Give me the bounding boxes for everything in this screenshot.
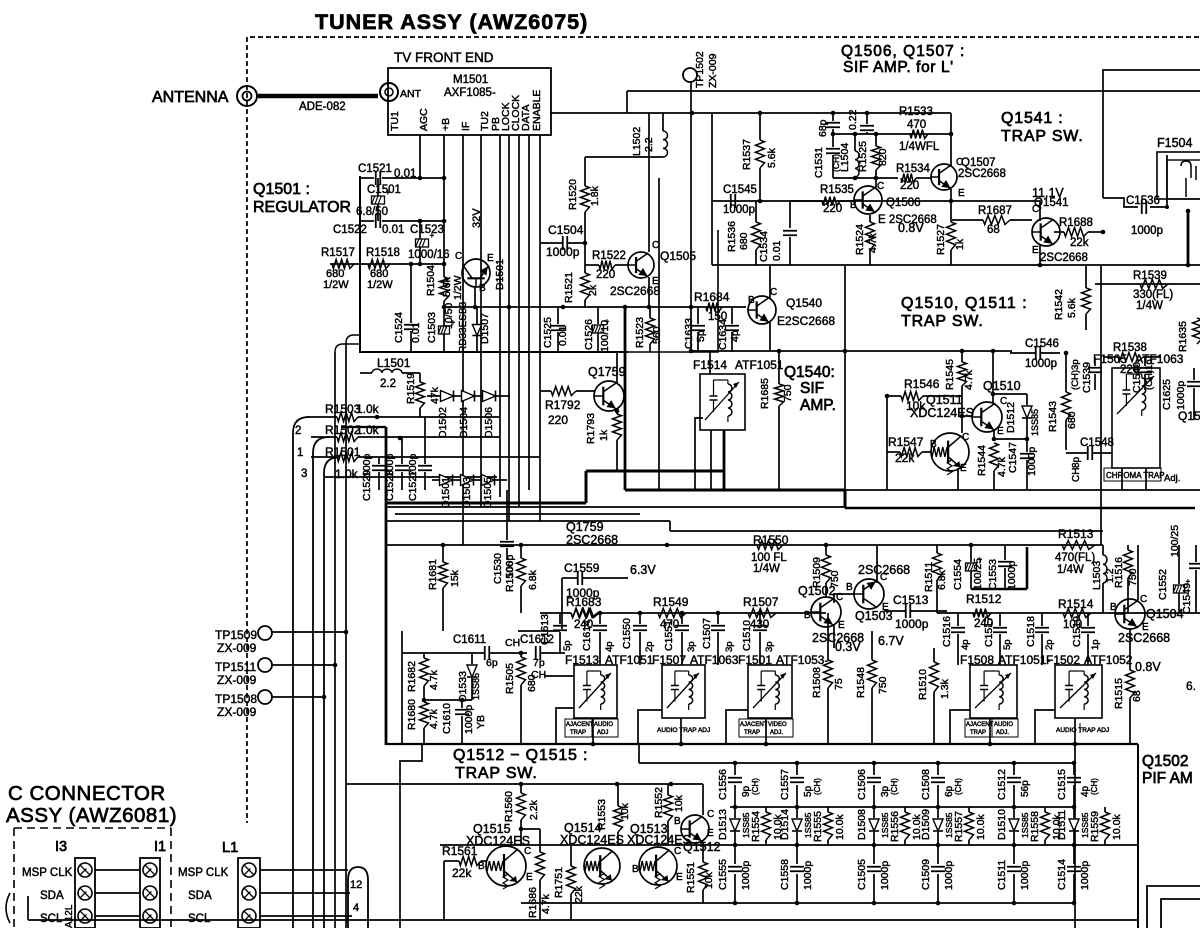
transistor Q1504 (1115, 599, 1145, 629)
svg-text:E: E (676, 872, 683, 883)
svg-text:1/4W: 1/4W (1136, 300, 1163, 312)
svg-text:1k: 1k (598, 429, 610, 441)
wire SIF row y178 (833, 177, 898, 179)
svg-text:R1688: R1688 (1059, 217, 1093, 229)
svg-text:E: E (526, 872, 533, 883)
wire TP1511 (271, 664, 335, 666)
svg-text:(CH): (CH) (954, 778, 963, 795)
wire row y477 (324, 476, 497, 478)
svg-text:C: C (524, 846, 531, 857)
svg-text:22k: 22k (452, 866, 472, 880)
svg-text:C1550: C1550 (621, 618, 633, 649)
transistor Q1501 (462, 259, 490, 287)
svg-text:C1522: C1522 (333, 224, 367, 236)
wire +B pin (443, 135, 445, 264)
wire bus y307 (443, 306, 746, 308)
svg-text:D1511: D1511 (1056, 810, 1068, 840)
filter F1513 box (574, 665, 617, 718)
svg-text:E2SC2668: E2SC2668 (777, 314, 835, 328)
svg-text:Q1505: Q1505 (660, 249, 696, 263)
antenna cable ADE-082 wire (258, 94, 378, 99)
wire x887 (886, 396, 888, 490)
svg-text:R1683: R1683 (566, 595, 602, 609)
svg-text:C: C (707, 809, 714, 820)
wire bus y744 heavy (386, 743, 1138, 745)
svg-text:5p: 5p (562, 640, 573, 651)
wire x639 stub (638, 744, 640, 763)
wire bus y351 (691, 350, 1012, 352)
svg-text:1000p: 1000p (1019, 861, 1031, 890)
svg-text:10k: 10k (619, 802, 631, 820)
connector I3 block (75, 858, 95, 928)
svg-text:(CH): (CH) (890, 778, 899, 795)
svg-text:1.8k: 1.8k (589, 185, 601, 206)
svg-text:1/2W: 1/2W (452, 275, 464, 300)
resistor R1539 (1140, 280, 1168, 289)
svg-text:R1685: R1685 (759, 378, 771, 409)
svg-text:C1512: C1512 (996, 769, 1008, 800)
svg-text:R1543: R1543 (1047, 401, 1059, 432)
transistor Q1515 (486, 846, 526, 889)
svg-text:C1507: C1507 (701, 618, 713, 649)
wire heavy L C1553 box (1026, 547, 1029, 589)
svg-text:ZX-009: ZX-009 (707, 53, 719, 88)
svg-text:C: C (880, 572, 887, 583)
svg-text:4.7k: 4.7k (963, 369, 975, 390)
svg-text:XDC124ES: XDC124ES (627, 833, 691, 847)
connector ribbon L1 right (348, 867, 368, 928)
svg-text:2p: 2p (1044, 639, 1055, 650)
svg-text:6.8k: 6.8k (527, 569, 539, 590)
transistor Q1540 (748, 296, 776, 324)
wire AGC pin (419, 135, 421, 178)
svg-text:C1501: C1501 (367, 184, 401, 196)
svg-text:680: 680 (738, 232, 750, 250)
svg-text:Q1540: Q1540 (786, 296, 822, 310)
svg-text:R1793: R1793 (585, 413, 597, 444)
wire LOCK pin (508, 135, 510, 521)
wire bus y920 (28, 919, 1138, 921)
svg-text:6p: 6p (486, 657, 498, 669)
svg-text:Q1759: Q1759 (588, 365, 626, 379)
wire SIF top bus y113 (712, 112, 951, 114)
transistor Q1512 (681, 815, 709, 843)
wire Q1511 collector to Q1510 base (962, 416, 972, 433)
svg-text:R1507: R1507 (743, 595, 779, 609)
svg-text:TRAP: TRAP (744, 730, 760, 736)
svg-text:C1547: C1547 (1007, 442, 1019, 473)
svg-text:10k: 10k (703, 871, 715, 889)
wire Q1503 collector up (876, 545, 878, 583)
wire bus y784 (346, 783, 703, 785)
svg-text:F1504: F1504 (1157, 136, 1192, 150)
svg-text:AUDIO: AUDIO (994, 722, 1013, 728)
svg-text:R1536: R1536 (726, 221, 738, 252)
svg-text:L1504: L1504 (839, 143, 851, 172)
F1508 pins (989, 718, 991, 744)
svg-text:R1751: R1751 (553, 867, 565, 898)
filter F1507 box (662, 665, 705, 718)
svg-text:ADJ.: ADJ. (770, 730, 783, 736)
svg-text:220: 220 (596, 269, 615, 281)
svg-text:C1510: C1510 (741, 620, 753, 651)
svg-text:1000p: 1000p (802, 861, 814, 890)
svg-text:SCL: SCL (188, 913, 211, 925)
svg-text:TRAP SW.: TRAP SW. (901, 313, 984, 330)
connector I1 block (140, 858, 160, 928)
svg-text:I3: I3 (55, 839, 67, 855)
svg-text:R1525: R1525 (857, 141, 869, 172)
svg-text:E: E (707, 828, 714, 839)
svg-text:1000p: 1000p (1079, 861, 1091, 890)
connector L1 block (238, 858, 260, 928)
svg-text:M1501: M1501 (453, 74, 488, 86)
wire bus y845 (440, 844, 1138, 846)
svg-text:0.8V: 0.8V (898, 221, 924, 235)
svg-text:Q1512 − Q1515 :: Q1512 − Q1515 : (453, 747, 588, 764)
svg-text:(CH): (CH) (813, 778, 822, 795)
wire Q1504 collector up (1137, 545, 1139, 600)
svg-text:YB: YB (475, 715, 487, 729)
svg-text:AUDIO TRAP ADJ: AUDIO TRAP ADJ (1056, 727, 1109, 734)
svg-text:2.2k: 2.2k (528, 799, 540, 820)
svg-text:R1515: R1515 (1113, 678, 1125, 709)
svg-text:F1505: F1505 (1093, 352, 1127, 366)
wire SIF left rail (711, 113, 713, 265)
svg-text:CH: CH (1071, 468, 1082, 482)
svg-text:E: E (1032, 245, 1039, 256)
svg-text:MSP CLK: MSP CLK (178, 867, 229, 879)
svg-text:C1503: C1503 (426, 312, 438, 343)
svg-text:1/4W: 1/4W (753, 563, 780, 575)
svg-text:R1635: R1635 (1177, 321, 1189, 352)
svg-text:TP1502: TP1502 (694, 51, 706, 88)
wire bus y763 (639, 762, 1075, 764)
svg-text:R1792: R1792 (545, 398, 581, 412)
svg-text:+: + (386, 188, 391, 197)
svg-text:1000p: 1000p (740, 861, 752, 890)
svg-text:C1611: C1611 (453, 634, 486, 646)
svg-text:75: 75 (833, 678, 845, 690)
diode D1501 row2 (440, 475, 453, 486)
svg-text:ENABLE: ENABLE (531, 90, 543, 131)
wire diode row y396 (433, 395, 441, 397)
svg-text:D1514: D1514 (779, 809, 791, 840)
svg-text:C1558: C1558 (779, 859, 791, 890)
wire left block outline (401, 631, 403, 744)
svg-text:C: C (1140, 594, 1147, 605)
svg-text:750: 750 (782, 384, 794, 402)
svg-text:D1501: D1501 (494, 259, 506, 290)
svg-text:+B: +B (440, 118, 452, 131)
svg-text:4p: 4p (960, 639, 971, 650)
wire R1561 left down (443, 861, 445, 920)
svg-text:R1539: R1539 (1133, 270, 1167, 282)
svg-text:B: B (632, 864, 639, 875)
svg-text:R1534: R1534 (896, 163, 930, 175)
svg-text:R1542: R1542 (1053, 289, 1065, 320)
wire Q1511 emitter down (957, 468, 959, 490)
svg-text:L1501: L1501 (377, 356, 411, 370)
svg-text:R1506: R1506 (504, 561, 516, 592)
wire bus y807 (730, 806, 1075, 808)
svg-text:6.3V: 6.3V (630, 563, 656, 577)
svg-text:ANT: ANT (400, 88, 422, 100)
svg-text:Q1541 :: Q1541 : (1001, 110, 1064, 127)
svg-text:0.22: 0.22 (847, 109, 859, 130)
wire diode row2 (432, 479, 440, 481)
svg-text:R1554: R1554 (750, 811, 762, 842)
svg-text:R1682: R1682 (406, 661, 418, 692)
svg-text:6.7V: 6.7V (878, 634, 904, 648)
svg-text:750: 750 (877, 676, 889, 694)
transistor Q1514 (584, 848, 620, 889)
svg-text:TU1: TU1 (389, 111, 401, 131)
svg-text:E: E (958, 188, 965, 199)
svg-text:R1559: R1559 (1089, 811, 1101, 842)
svg-text:680: 680 (526, 674, 538, 692)
svg-text:Q1540:: Q1540: (784, 364, 835, 381)
svg-text:L1502: L1502 (631, 127, 643, 156)
wire heavy y471 (586, 470, 724, 473)
svg-text:C1545: C1545 (723, 184, 757, 196)
svg-text:SDA: SDA (40, 890, 64, 902)
regulator box outline (360, 176, 628, 352)
svg-text:C: C (877, 181, 884, 192)
wire TP1509 (271, 631, 346, 633)
svg-text:ZX-009: ZX-009 (217, 673, 257, 687)
svg-text:R1537: R1537 (741, 139, 753, 170)
svg-text:D1510: D1510 (996, 809, 1008, 840)
svg-text:C1555: C1555 (717, 859, 729, 890)
wire x724 heavy (723, 430, 726, 490)
svg-text:0.01: 0.01 (382, 224, 404, 236)
wire Q1505 collector (648, 113, 650, 252)
svg-text:CH: CH (505, 637, 520, 649)
svg-text:C1526: C1526 (583, 319, 595, 350)
svg-text:C1505: C1505 (856, 859, 868, 890)
svg-text:1000/16: 1000/16 (408, 249, 450, 261)
wire x845 (844, 265, 846, 490)
svg-text:CHROMA TRAP: CHROMA TRAP (1106, 471, 1165, 480)
svg-text:AUDIO: AUDIO (594, 722, 613, 728)
svg-text:+: + (978, 555, 983, 564)
wire heavy F1504 down (1187, 210, 1190, 265)
svg-text:C1531: C1531 (813, 147, 825, 178)
svg-text:TP1508: TP1508 (215, 692, 257, 706)
svg-text:2SC2668: 2SC2668 (1118, 631, 1170, 645)
svg-text:C: C (962, 432, 969, 443)
svg-text:AJACENT: AJACENT (966, 722, 994, 728)
svg-text:5.6k: 5.6k (766, 147, 778, 168)
svg-text:C1523: C1523 (410, 224, 444, 236)
svg-text:Q1502: Q1502 (798, 584, 836, 598)
filter F1504 box (1157, 152, 1200, 199)
wire bus bundle verticals (334, 352, 336, 928)
wire x386 heavy (385, 427, 388, 745)
wire Q1507 emitter down (950, 189, 952, 201)
svg-text:C1529: C1529 (361, 470, 373, 501)
svg-text:E: E (997, 426, 1004, 437)
svg-text:10.0k: 10.0k (1111, 814, 1123, 840)
svg-text:Q1511: Q1511 (926, 393, 963, 407)
connector assy dashed box (14, 827, 171, 829)
wire I3-I1 row3 (95, 915, 140, 917)
diode D1503 (461, 475, 474, 486)
svg-text:C1506: C1506 (856, 769, 868, 800)
svg-text:TV FRONT END: TV FRONT END (394, 50, 494, 65)
continuation arc bottom left (6, 893, 10, 923)
wire bus y613 right (937, 612, 1200, 614)
svg-text:1000p: 1000p (895, 617, 929, 631)
svg-text:+: + (605, 317, 610, 326)
wire heavy jog x845 (844, 490, 847, 508)
svg-text:+: + (430, 231, 435, 240)
svg-text:C1610: C1610 (441, 703, 453, 734)
wire Q1540 collector (769, 265, 771, 299)
svg-text:C1633: C1633 (683, 318, 695, 349)
svg-text:R1686: R1686 (527, 887, 539, 918)
svg-text:R1521: R1521 (563, 272, 575, 303)
wire R1539 row (1095, 283, 1200, 285)
svg-text:R1522: R1522 (592, 250, 626, 262)
svg-text:R1555: R1555 (812, 811, 824, 842)
tuner assy dashed border top (250, 36, 1200, 38)
svg-text:SIF AMP. for L': SIF AMP. for L' (843, 59, 954, 76)
wire PB pin (499, 135, 501, 497)
svg-text:TP1511: TP1511 (215, 660, 256, 674)
svg-text:C1524: C1524 (393, 312, 405, 343)
svg-text:1/2W: 1/2W (323, 279, 349, 291)
svg-text:1000p: 1000p (1131, 225, 1163, 237)
wire y700 (424, 699, 472, 701)
wire Q1510 collector (992, 351, 994, 404)
svg-text:C: C (455, 251, 462, 262)
wire I3-I1 row2 (95, 892, 140, 894)
svg-text:+: + (451, 318, 456, 327)
svg-text:4p: 4p (729, 330, 741, 342)
svg-text:470: 470 (907, 119, 926, 131)
svg-text:RD33ESB3: RD33ESB3 (458, 301, 469, 353)
svg-text:REGULATOR: REGULATOR (253, 199, 351, 216)
svg-text:R1504: R1504 (425, 265, 437, 296)
svg-text:7p: 7p (533, 657, 545, 669)
svg-text:2SC2668: 2SC2668 (958, 168, 1006, 180)
svg-text:ZX-009: ZX-009 (217, 705, 257, 719)
svg-text:D1513: D1513 (717, 809, 729, 840)
svg-text:C1515: C1515 (1056, 769, 1068, 800)
svg-text:C1554: C1554 (952, 559, 964, 590)
svg-text:C1534: C1534 (758, 231, 770, 262)
svg-text:R1548: R1548 (855, 667, 867, 698)
wire bottom left stub (27, 896, 29, 920)
svg-text:C1614: C1614 (581, 620, 593, 651)
label box AJACENT VIDEO TRAP ADJ (F1501) (739, 719, 793, 737)
wire F1504 lead (1166, 155, 1168, 207)
label box AJACENT AUDIO TRAP ADJ (F1513) (565, 719, 618, 737)
wire C1536 to F1504 (1150, 206, 1167, 208)
wire bus y514 (395, 513, 640, 515)
svg-text:Q1502: Q1502 (1142, 753, 1189, 770)
svg-text:R1508: R1508 (811, 667, 823, 698)
svg-text:Q1501 :: Q1501 : (253, 181, 310, 198)
wire Q1540 emitter (769, 322, 771, 351)
svg-text:TRAP SW.: TRAP SW. (1001, 128, 1084, 145)
svg-text:R1553: R1553 (596, 799, 608, 830)
svg-text:4.7k: 4.7k (540, 893, 552, 914)
svg-text:TRAP SW.: TRAP SW. (455, 765, 538, 782)
svg-text:6.8/50: 6.8/50 (356, 206, 388, 218)
wire y521 jog (669, 521, 671, 531)
wire stub x627 (626, 91, 628, 113)
wire Q1507 collector up (950, 113, 952, 166)
wire Q1501 base down (474, 287, 476, 307)
svg-text:Q1510, Q1511 :: Q1510, Q1511 : (901, 295, 1028, 312)
transistor Q1510 (972, 402, 1002, 432)
transistor Q1505 (628, 252, 654, 278)
svg-text:0.8V: 0.8V (1135, 660, 1161, 674)
svg-text:220: 220 (548, 413, 568, 427)
svg-text:1000p: 1000p (879, 861, 891, 890)
svg-text:1.0k: 1.0k (356, 402, 380, 416)
svg-text:10.0k: 10.0k (834, 814, 846, 840)
svg-text:B: B (674, 816, 681, 827)
diode D1505 (482, 475, 495, 486)
svg-text:6.: 6. (1186, 679, 1196, 693)
svg-text:ZX-009: ZX-009 (217, 641, 257, 655)
svg-text:D1533: D1533 (457, 671, 469, 702)
svg-text:IF: IF (460, 122, 472, 131)
wire Q1541 emitter (1039, 244, 1041, 265)
filter F1514 box (700, 374, 745, 430)
svg-text:MSP CLK: MSP CLK (22, 867, 73, 879)
diode D1506 (483, 391, 496, 402)
svg-text:4.7k: 4.7k (428, 669, 440, 690)
svg-text:R1513: R1513 (1058, 527, 1094, 541)
wire bus y903 (521, 902, 1075, 904)
svg-text:2: 2 (295, 425, 301, 437)
svg-text:C1548: C1548 (1080, 437, 1114, 449)
svg-text:5p: 5p (1002, 639, 1013, 650)
svg-text:L1503: L1503 (1091, 561, 1103, 590)
svg-text:L1: L1 (222, 840, 238, 856)
svg-text:ATF1063: ATF1063 (1135, 352, 1184, 366)
svg-text:1: 1 (297, 447, 303, 459)
svg-text:470(FL): 470(FL) (1055, 552, 1095, 564)
svg-text:ADJ.: ADJ. (996, 730, 1009, 736)
wire DATA pin (528, 135, 530, 490)
svg-text:C1556: C1556 (717, 769, 729, 800)
svg-text:XDC124ES: XDC124ES (910, 406, 974, 420)
wire bus y507 (386, 506, 845, 508)
svg-text:R1533: R1533 (899, 106, 933, 118)
svg-text:C1612: C1612 (520, 634, 554, 646)
svg-text:TP1509: TP1509 (215, 628, 257, 642)
svg-text:C1551: C1551 (663, 620, 675, 651)
svg-text:2SC2668: 2SC2668 (1040, 252, 1088, 264)
transistor Q1503 (854, 579, 884, 609)
bottom right corner frame inner (1161, 899, 1200, 928)
svg-text:1SS85: 1SS85 (1030, 409, 1040, 436)
svg-text:C1530: C1530 (492, 553, 504, 584)
svg-text:R1546: R1546 (904, 377, 940, 391)
ANT input connector on M1501 (380, 83, 398, 101)
transistor Q1513 (639, 847, 677, 889)
wire bus y613 (597, 612, 826, 614)
svg-text:C1557: C1557 (779, 769, 791, 800)
svg-text:32V: 32V (471, 208, 483, 228)
wire y427 heavy stub (341, 426, 386, 428)
